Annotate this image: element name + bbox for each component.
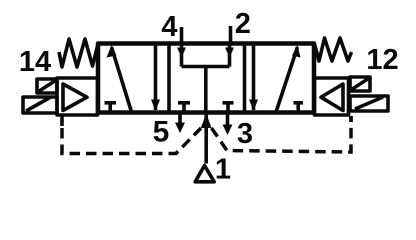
svg-text:2: 2 xyxy=(235,8,251,40)
svg-text:5: 5 xyxy=(153,116,170,149)
svg-text:3: 3 xyxy=(237,118,253,150)
svg-text:4: 4 xyxy=(161,11,177,43)
svg-text:1: 1 xyxy=(215,154,231,186)
svg-text:14: 14 xyxy=(19,46,51,78)
svg-text:12: 12 xyxy=(366,44,398,76)
